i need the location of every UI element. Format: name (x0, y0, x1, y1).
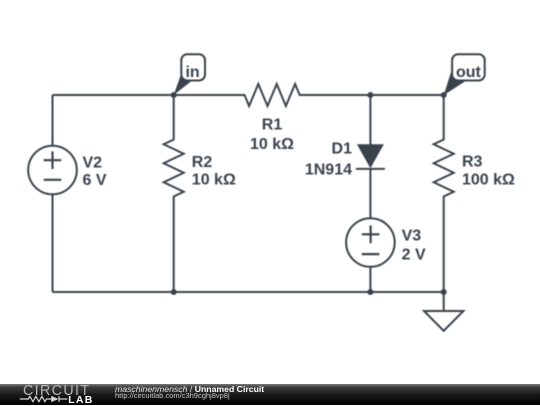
svg-text:R3: R3 (462, 154, 483, 171)
svg-text:V3: V3 (402, 227, 422, 244)
svg-text:100 kΩ: 100 kΩ (462, 172, 515, 189)
svg-text:10 kΩ: 10 kΩ (192, 172, 236, 189)
svg-text:D1: D1 (332, 141, 353, 158)
svg-text:R2: R2 (192, 154, 213, 171)
svg-text:2 V: 2 V (402, 247, 426, 264)
svg-text:6 V: 6 V (83, 172, 107, 189)
svg-text:10 kΩ: 10 kΩ (250, 136, 294, 153)
svg-text:in: in (185, 64, 199, 81)
svg-text:V2: V2 (83, 154, 103, 171)
svg-text:R1: R1 (262, 117, 283, 134)
svg-text:1N914: 1N914 (305, 161, 352, 178)
svg-text:out: out (456, 64, 482, 81)
